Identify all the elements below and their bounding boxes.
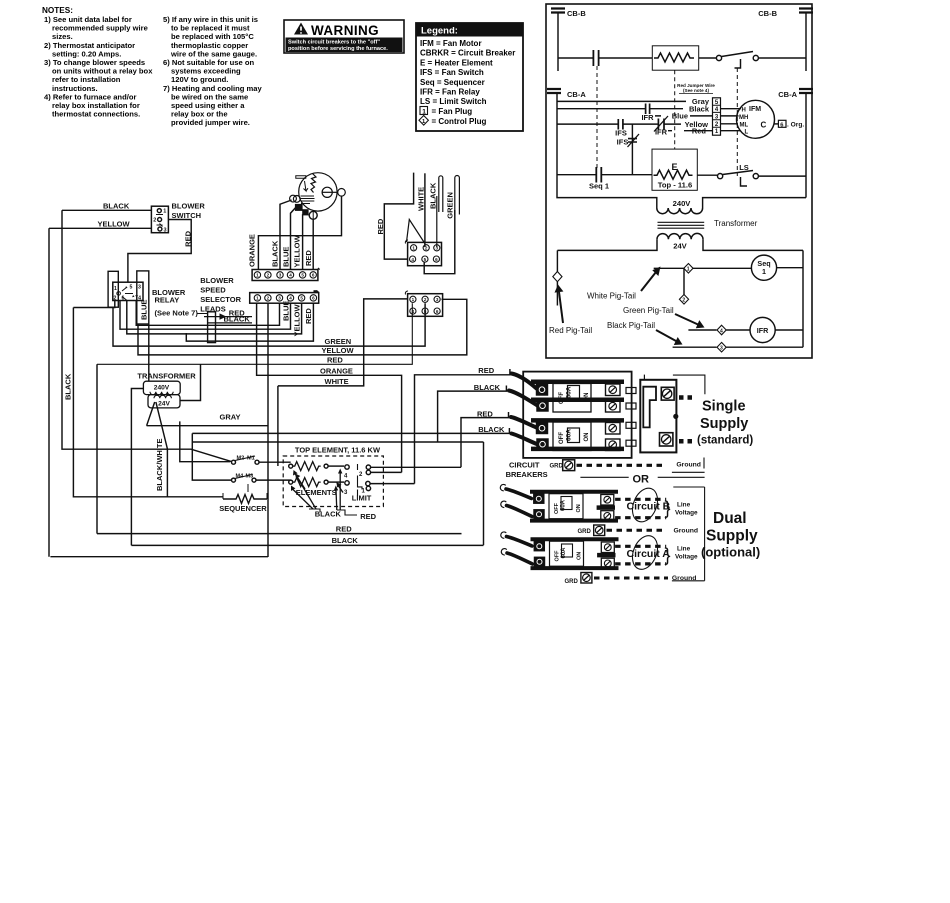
heater element E box bbox=[652, 149, 697, 190]
arrow white bbox=[641, 272, 656, 291]
svg-text:BLUE: BLUE bbox=[282, 247, 291, 267]
svg-text:= Control Plug: = Control Plug bbox=[432, 117, 487, 126]
svg-text:240V: 240V bbox=[673, 199, 692, 208]
svg-text:WARNING: WARNING bbox=[311, 23, 379, 38]
strip1 wire color labels bbox=[248, 234, 314, 267]
wire bbox=[758, 57, 806, 59]
svg-text:2: 2 bbox=[682, 298, 685, 304]
wire red from switch bbox=[128, 220, 191, 283]
svg-text:2: 2 bbox=[425, 246, 428, 251]
contact IFS-1 bbox=[618, 119, 623, 130]
wire relay T4 to strip2 pin3 bbox=[136, 301, 279, 326]
red label bracket bbox=[336, 473, 340, 511]
wire 240V loop bbox=[557, 176, 657, 208]
svg-text:SEQUENCER: SEQUENCER bbox=[219, 504, 267, 513]
single supply lug block bbox=[640, 380, 676, 453]
sequencer coil bbox=[247, 484, 249, 492]
svg-text:LS: LS bbox=[739, 163, 749, 172]
svg-text:CB-B: CB-B bbox=[567, 9, 586, 18]
dual bracket bbox=[672, 487, 705, 581]
svg-text:BLACK: BLACK bbox=[478, 425, 505, 434]
transformer core bbox=[658, 222, 705, 228]
element resistor 1 bbox=[289, 464, 293, 468]
wire strip2 pin2 down gray/bottom bbox=[267, 303, 269, 557]
wire limit2 row out bbox=[371, 466, 461, 468]
red lead bbox=[204, 316, 252, 318]
circuit breaker CB-B left bbox=[551, 9, 565, 72]
svg-text:GRD: GRD bbox=[578, 529, 592, 535]
connector block lower bbox=[405, 291, 408, 295]
svg-text:Ground: Ground bbox=[674, 528, 699, 535]
svg-text:GRAY: GRAY bbox=[220, 412, 241, 421]
svg-text:ON: ON bbox=[584, 393, 590, 402]
svg-text:RED: RED bbox=[304, 250, 313, 266]
limit actuator links bbox=[358, 464, 363, 496]
svg-text:IFR: IFR bbox=[757, 326, 769, 335]
svg-text:BLOWER: BLOWER bbox=[172, 202, 206, 211]
contact IFS-2 bbox=[628, 139, 637, 142]
arrow green bbox=[675, 314, 698, 325]
svg-text:OR: OR bbox=[633, 473, 650, 485]
LEGEND-BOX bbox=[416, 23, 523, 131]
svg-text:BLUE: BLUE bbox=[282, 301, 291, 321]
wire relay pin6 to strip2 pin5 bbox=[127, 301, 302, 334]
motor terminals bbox=[290, 195, 297, 202]
branch to plug 2 bbox=[683, 268, 685, 294]
arrow red bbox=[559, 292, 563, 323]
wire black net loop bbox=[192, 433, 483, 545]
wire gray bbox=[147, 425, 268, 427]
resistor element E2 box bbox=[652, 46, 698, 70]
svg-text:IFR = Fan Relay: IFR = Fan Relay bbox=[420, 88, 480, 97]
svg-text:BREAKERS: BREAKERS bbox=[506, 470, 548, 479]
svg-text:3: 3 bbox=[720, 346, 723, 352]
svg-text:5: 5 bbox=[300, 296, 303, 301]
dual supply text bbox=[701, 510, 760, 560]
control plug 1 bbox=[684, 264, 693, 274]
svg-text:RED: RED bbox=[304, 308, 313, 324]
svg-text:GRD: GRD bbox=[565, 579, 579, 585]
svg-text:1: 1 bbox=[687, 267, 690, 273]
svg-text:1: 1 bbox=[412, 246, 415, 251]
arrow black bbox=[656, 330, 676, 341]
warning triangle icon bbox=[294, 23, 308, 35]
wire black motor bbox=[280, 200, 292, 270]
wire blue motor bbox=[291, 207, 296, 270]
svg-text:2: 2 bbox=[424, 297, 427, 302]
black label arrows bbox=[293, 474, 317, 510]
svg-text:CBRKR = Circuit Breaker: CBRKR = Circuit Breaker bbox=[420, 49, 515, 58]
circuit breaker CB-A right bbox=[799, 89, 813, 198]
svg-text:IFM: IFM bbox=[749, 106, 761, 113]
wire relay right wing to transformer bbox=[148, 324, 150, 381]
svg-text:6: 6 bbox=[122, 296, 125, 302]
svg-text:BLACK: BLACK bbox=[271, 240, 280, 267]
svg-text:TRANSFORMER: TRANSFORMER bbox=[137, 372, 196, 381]
svg-text:6: 6 bbox=[312, 296, 315, 301]
svg-text:60A: 60A bbox=[561, 499, 567, 511]
wire top line L1-B bbox=[558, 57, 593, 59]
svg-text:IFR: IFR bbox=[641, 113, 654, 122]
wire black stub loop bbox=[439, 176, 443, 212]
svg-text:Seq 1: Seq 1 bbox=[589, 182, 609, 191]
circuit breaker main box bbox=[523, 372, 631, 458]
wire red motor bbox=[312, 219, 314, 270]
svg-text:Seq = Sequencer: Seq = Sequencer bbox=[420, 78, 485, 87]
wire white pigtail bbox=[654, 267, 684, 269]
svg-text:CIRCUIT: CIRCUIT bbox=[509, 460, 540, 469]
svg-text:NOTES:: NOTES: bbox=[42, 6, 73, 15]
24V circuit left drop bbox=[556, 250, 558, 271]
svg-text:RED: RED bbox=[478, 366, 494, 375]
wire yellow motor bbox=[302, 214, 304, 270]
svg-text:M2: M2 bbox=[237, 456, 245, 462]
wire 24V left diag to gray bbox=[147, 402, 155, 426]
breaker unit 1 bbox=[531, 382, 624, 412]
sequencer coil Seq 1 bbox=[751, 255, 776, 280]
svg-text:GREEN: GREEN bbox=[325, 337, 352, 346]
svg-text:SWITCH: SWITCH bbox=[172, 211, 202, 220]
svg-text:IFR: IFR bbox=[655, 128, 668, 137]
wire white drop bbox=[277, 386, 279, 466]
label red jumper wire bbox=[677, 83, 715, 93]
svg-text:RED: RED bbox=[336, 524, 352, 533]
blower relay assembly bbox=[108, 271, 118, 307]
svg-text:4: 4 bbox=[411, 257, 414, 262]
svg-text:(standard): (standard) bbox=[697, 435, 753, 447]
wire 24V right lead bbox=[180, 364, 200, 400]
wire green pigtail row bbox=[688, 329, 716, 331]
svg-text:ON: ON bbox=[577, 552, 583, 560]
svg-text:60A: 60A bbox=[566, 429, 573, 441]
svg-text:24V: 24V bbox=[158, 401, 170, 408]
svg-text:2: 2 bbox=[153, 218, 156, 224]
svg-text:}: } bbox=[665, 498, 671, 518]
svg-text:ML: ML bbox=[740, 123, 749, 129]
svg-text:Ground: Ground bbox=[676, 462, 701, 469]
contact IFR NC bbox=[658, 119, 664, 130]
svg-text:provided jumper wire.: provided jumper wire. bbox=[171, 118, 250, 127]
svg-text:ON: ON bbox=[584, 433, 590, 442]
svg-text:BLOWER: BLOWER bbox=[200, 276, 234, 285]
svg-text:OFF: OFF bbox=[559, 392, 565, 404]
svg-text:1: 1 bbox=[422, 109, 426, 116]
svg-text:Transformer: Transformer bbox=[714, 219, 758, 228]
svg-text:Switch circuit breakers to th: Switch circuit breakers to the "off" bbox=[288, 40, 380, 46]
element resistor 2 bbox=[289, 480, 293, 484]
svg-text:OFF: OFF bbox=[554, 502, 560, 514]
wire limit1 row out bbox=[370, 483, 414, 485]
dual supply breaker A bbox=[501, 532, 619, 569]
svg-text:LS = Limit Switch: LS = Limit Switch bbox=[420, 97, 487, 106]
wire 240V left lead bbox=[131, 389, 143, 546]
wire bottom rail L1-A bbox=[557, 174, 596, 176]
OR divider bbox=[580, 476, 704, 478]
outer box bbox=[546, 4, 812, 358]
svg-text:Dual: Dual bbox=[713, 510, 747, 527]
svg-text:BLACK: BLACK bbox=[224, 314, 251, 323]
svg-text:YELLOW: YELLOW bbox=[322, 346, 355, 355]
svg-text:1: 1 bbox=[256, 296, 259, 301]
sequencer M4 feed loop bbox=[192, 442, 483, 480]
svg-text:2: 2 bbox=[267, 273, 270, 278]
control plug 4 (red pigtail) bbox=[553, 272, 562, 282]
svg-text:240V: 240V bbox=[154, 385, 170, 392]
control plug 4g bbox=[717, 325, 726, 335]
svg-text:= Fan Plug: = Fan Plug bbox=[432, 107, 473, 116]
svg-text:H: H bbox=[742, 108, 746, 114]
svg-text:CB-A: CB-A bbox=[778, 90, 797, 99]
svg-text:IFM = Fan Motor: IFM = Fan Motor bbox=[420, 39, 482, 48]
svg-text:Single: Single bbox=[702, 399, 746, 415]
svg-text:Line: Line bbox=[677, 546, 691, 553]
circuit breaker CB-A left bbox=[547, 89, 561, 176]
svg-text:WHITE: WHITE bbox=[325, 377, 349, 386]
transformer secondary 24V bbox=[557, 239, 657, 250]
wire bbox=[699, 57, 717, 59]
MAIN-DIAGRAM bbox=[49, 173, 484, 557]
wire relay mid to strip2 pin4 bbox=[120, 301, 291, 330]
svg-text:RED: RED bbox=[376, 218, 385, 234]
sequencer SEQ bbox=[180, 421, 230, 461]
fan motor IFM bbox=[737, 100, 775, 138]
limit switch contacts bbox=[345, 465, 349, 469]
svg-text:C: C bbox=[761, 121, 767, 130]
svg-text:BLUE: BLUE bbox=[140, 300, 149, 320]
wire yellow vertical left bbox=[48, 228, 50, 556]
wire orange long bbox=[257, 303, 402, 472]
circuit breaker CB-B right bbox=[799, 9, 813, 72]
wire 24V right diag black/white bbox=[156, 402, 168, 497]
svg-text:Green Pig-Tail: Green Pig-Tail bbox=[623, 306, 674, 315]
svg-text:Supply: Supply bbox=[700, 416, 748, 432]
polarization flag bbox=[407, 220, 425, 244]
svg-text:6: 6 bbox=[436, 309, 439, 314]
svg-text:CB-B: CB-B bbox=[758, 9, 777, 18]
svg-text:M1: M1 bbox=[247, 456, 255, 462]
svg-text:Voltage: Voltage bbox=[675, 510, 698, 517]
wire red long bbox=[97, 303, 412, 364]
svg-text:WHITE: WHITE bbox=[417, 187, 426, 211]
switch LS-2 bbox=[716, 55, 721, 60]
svg-text:4: 4 bbox=[720, 328, 723, 334]
svg-text:1: 1 bbox=[412, 297, 415, 302]
contact Seq 1 bbox=[596, 167, 601, 183]
BREAKER-SECTION bbox=[192, 366, 760, 585]
switch LS bbox=[718, 174, 723, 179]
svg-text:24V: 24V bbox=[673, 242, 687, 251]
breaker unit 2 bbox=[531, 420, 624, 450]
connector strip 1 bbox=[252, 270, 318, 281]
svg-text:Legend:: Legend: bbox=[421, 26, 458, 37]
dashed link lines bbox=[596, 66, 598, 170]
wire green stub loop bbox=[455, 176, 460, 215]
svg-text:3: 3 bbox=[436, 297, 439, 302]
svg-text:SELECTOR: SELECTOR bbox=[200, 295, 241, 304]
svg-text:4: 4 bbox=[289, 296, 292, 301]
wire red bottom bbox=[97, 533, 462, 535]
svg-text:TOP ELEMENT, 11.6 KW: TOP ELEMENT, 11.6 KW bbox=[295, 445, 381, 454]
svg-text:60A: 60A bbox=[566, 386, 573, 398]
svg-text:5: 5 bbox=[424, 309, 427, 314]
svg-text:ORANGE: ORANGE bbox=[248, 234, 257, 267]
svg-text:IFS: IFS bbox=[615, 129, 627, 138]
circuit breakers label bbox=[506, 460, 548, 479]
WARNING-BOX bbox=[284, 20, 404, 53]
wire red feed left bbox=[96, 364, 98, 533]
wire relay pin2 drop bbox=[73, 308, 223, 497]
wire black pigtail row bbox=[673, 346, 717, 348]
svg-text:1: 1 bbox=[762, 267, 766, 276]
svg-text:YELLOW: YELLOW bbox=[98, 219, 131, 228]
svg-text:Line: Line bbox=[677, 502, 691, 509]
svg-text:RED: RED bbox=[184, 230, 193, 246]
IFS branch bbox=[631, 124, 633, 175]
svg-text:IFS = Fan Switch: IFS = Fan Switch bbox=[420, 68, 484, 77]
wire limit2b orange junction bbox=[371, 471, 402, 473]
svg-text:MH: MH bbox=[739, 115, 748, 121]
svg-text:4: 4 bbox=[412, 309, 415, 314]
svg-text:3: 3 bbox=[164, 228, 167, 234]
wire blue stub bbox=[655, 115, 712, 117]
svg-text:6: 6 bbox=[435, 257, 438, 262]
wire white stub bbox=[424, 173, 426, 247]
pigtail labels + arrows bbox=[549, 292, 674, 336]
TOPRIGHT-SCHEMATIC bbox=[546, 4, 813, 358]
svg-text:60A: 60A bbox=[561, 547, 567, 559]
svg-text:Voltage: Voltage bbox=[675, 554, 698, 561]
svg-text:1: 1 bbox=[163, 209, 166, 215]
wire red stub bbox=[668, 130, 712, 132]
transformer primary 240V bbox=[657, 208, 703, 214]
contact Seq1-2 bbox=[593, 50, 598, 66]
elements arrows bbox=[298, 478, 306, 490]
fan relay coil IFR bbox=[750, 317, 775, 342]
svg-text:(See note 4): (See note 4) bbox=[683, 88, 710, 93]
svg-text:BLACK: BLACK bbox=[332, 536, 359, 545]
svg-text:Top - 11.6: Top - 11.6 bbox=[658, 181, 692, 190]
svg-text:ELEMENTS: ELEMENTS bbox=[296, 488, 337, 497]
wire white long bbox=[278, 299, 408, 386]
FIELD-CONNECTORS bbox=[376, 173, 459, 317]
wire yellow long bbox=[138, 299, 467, 355]
jumper plug bbox=[208, 312, 216, 343]
black lead bbox=[208, 322, 252, 324]
svg-text:BLACK: BLACK bbox=[64, 373, 73, 400]
wire yellow bbox=[557, 123, 618, 125]
connector strip 2 bbox=[250, 293, 319, 304]
strip2 lower labels bbox=[282, 301, 314, 337]
svg-text:YELLOW: YELLOW bbox=[293, 303, 302, 336]
svg-text:RELAY: RELAY bbox=[155, 296, 180, 305]
svg-text:BLACK: BLACK bbox=[315, 510, 342, 519]
svg-text:White Pig-Tail: White Pig-Tail bbox=[587, 292, 636, 301]
svg-text:Red Pig-Tail: Red Pig-Tail bbox=[549, 326, 592, 335]
breaker tabs to lug block bbox=[626, 388, 636, 447]
svg-text:GREEN: GREEN bbox=[446, 192, 455, 219]
svg-text:E = Heater Element: E = Heater Element bbox=[420, 58, 493, 67]
svg-text:BLACK: BLACK bbox=[103, 202, 130, 211]
control plug symbol bbox=[419, 116, 428, 126]
svg-text:ORANGE: ORANGE bbox=[320, 366, 353, 375]
svg-text:BLACK: BLACK bbox=[429, 182, 438, 209]
svg-text:3: 3 bbox=[436, 246, 439, 251]
wire black vertical left bbox=[62, 210, 232, 461]
svg-text:IFS: IFS bbox=[617, 138, 629, 147]
svg-text:L: L bbox=[745, 130, 749, 136]
svg-text:YELLOW: YELLOW bbox=[293, 234, 302, 267]
svg-text:GRD: GRD bbox=[550, 464, 564, 470]
wire black bbox=[557, 108, 645, 110]
wires pins to motor bbox=[721, 109, 742, 131]
contact IFR bbox=[646, 104, 650, 115]
svg-text:6: 6 bbox=[312, 273, 315, 278]
svg-text:2: 2 bbox=[267, 296, 270, 301]
single supply text bbox=[697, 399, 753, 447]
fan plug 1 on red lead bbox=[309, 211, 317, 219]
svg-text:thermostat connections.: thermostat connections. bbox=[52, 110, 140, 119]
svg-text:3: 3 bbox=[279, 273, 282, 278]
wire bottom rail bbox=[50, 556, 268, 558]
svg-text:OFF: OFF bbox=[559, 432, 565, 444]
svg-text:5: 5 bbox=[130, 285, 133, 291]
svg-text:5: 5 bbox=[301, 273, 304, 278]
svg-text:RED: RED bbox=[327, 355, 343, 364]
wire green long bbox=[113, 303, 425, 346]
svg-text:SPEED: SPEED bbox=[200, 286, 226, 295]
svg-text:M4: M4 bbox=[236, 474, 245, 480]
svg-text:4: 4 bbox=[289, 273, 292, 278]
svg-text:3: 3 bbox=[278, 296, 281, 301]
svg-text:3: 3 bbox=[138, 285, 141, 291]
svg-text:ON: ON bbox=[576, 504, 582, 512]
svg-text:position before servicing the: position before servicing the furnace. bbox=[288, 46, 388, 52]
blower motor drawing bbox=[290, 173, 346, 215]
svg-text:(See Note 7): (See Note 7) bbox=[155, 309, 199, 318]
svg-text:1: 1 bbox=[114, 286, 117, 292]
svg-text:Black Pig-Tail: Black Pig-Tail bbox=[607, 321, 655, 330]
wire relay pin2 left bbox=[73, 301, 114, 308]
wire strip2 pin6 loop bbox=[186, 303, 313, 341]
top element dashed box bbox=[283, 456, 383, 507]
svg-text:LIMIT: LIMIT bbox=[352, 494, 372, 503]
svg-text:M3: M3 bbox=[246, 474, 254, 480]
blower speed selector leads label bbox=[200, 276, 241, 314]
svg-text:RED: RED bbox=[360, 512, 376, 521]
svg-text:1: 1 bbox=[256, 273, 259, 278]
wire gray bbox=[557, 100, 686, 102]
wire red stub bbox=[384, 173, 413, 260]
svg-text:}: } bbox=[665, 545, 671, 565]
thick supply wires single bbox=[509, 374, 538, 445]
capacitor lead to plug 6 bbox=[775, 123, 779, 125]
wire black feed left bbox=[131, 544, 483, 546]
svg-text:CB-A: CB-A bbox=[567, 90, 586, 99]
wire orange loop C bbox=[258, 196, 341, 270]
thick dashed leads bbox=[679, 395, 695, 400]
svg-text:Black: Black bbox=[689, 105, 710, 114]
svg-text:BLACK/WHITE: BLACK/WHITE bbox=[155, 439, 164, 492]
control plug 3 bbox=[717, 342, 726, 352]
connector block upper bbox=[405, 240, 408, 244]
svg-text:(optional): (optional) bbox=[701, 545, 760, 560]
wire bbox=[599, 57, 652, 59]
blower switch SW1 bbox=[151, 206, 168, 233]
fan plug pin column 5-1 bbox=[713, 98, 721, 135]
svg-text:Supply: Supply bbox=[706, 528, 758, 545]
svg-text:. Org.: . Org. bbox=[787, 122, 804, 129]
dual supply breaker B bbox=[500, 484, 618, 521]
